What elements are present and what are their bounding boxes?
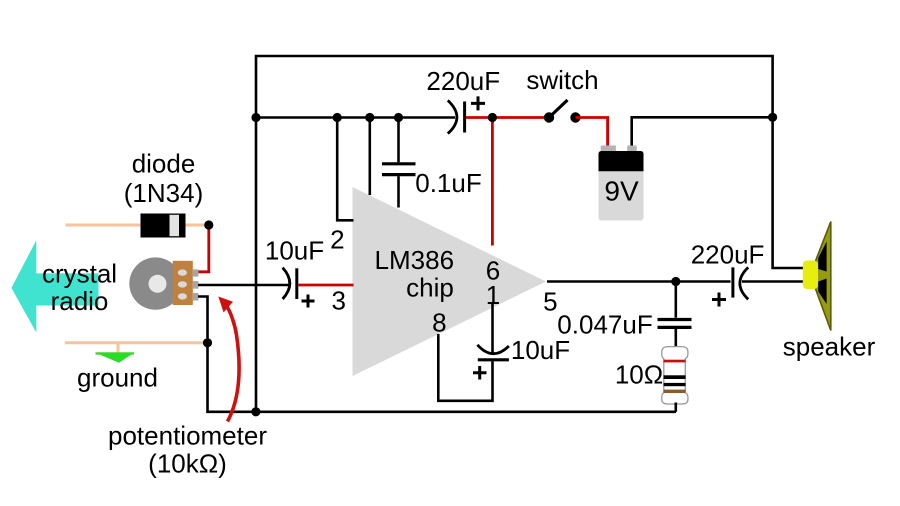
junction dot pot bottom / ground lead xyxy=(203,338,212,347)
junction dot pin6 supply xyxy=(488,113,497,122)
wire: earth ground lead (peach) xyxy=(65,341,206,344)
svg-text:5: 5 xyxy=(543,287,557,317)
potentiometer terminal top xyxy=(193,269,199,276)
wire: 0.1uF bottom stub xyxy=(397,176,400,207)
wire: output cap to speaker xyxy=(742,280,804,283)
wire: 0.1uF top stub xyxy=(397,118,400,163)
wire: output from pin 5 to 220uF out cap xyxy=(547,280,731,283)
junction dot 0.1uF stub xyxy=(394,113,403,122)
potentiometer eyelet bottom xyxy=(178,293,187,299)
wire: V+ rail (black part, left of 220uF cap) xyxy=(255,116,455,119)
diode cathode band xyxy=(170,215,180,236)
svg-text:(1N34): (1N34) xyxy=(124,178,203,208)
wire: black from battery - terminal to top-right rail xyxy=(632,117,773,146)
resistor band red xyxy=(664,360,686,363)
battery - terminal xyxy=(627,146,637,152)
wire: resistor bottom stub xyxy=(674,403,677,412)
plus sign of gain cap xyxy=(473,366,487,380)
wire: pot bottom terminal to ground bottom rail xyxy=(198,297,676,412)
resistor R2 10 ohm body (dog-bone) xyxy=(662,347,688,404)
resistor band brown xyxy=(664,390,686,393)
wire: red input cap to pin 3 xyxy=(298,284,353,287)
capacitor C1 220uF (top) curved plate xyxy=(448,100,457,133)
svg-text:radio: radio xyxy=(51,286,109,316)
capacitor C1 220uF (top) straight plate xyxy=(463,102,466,133)
junction dot output node xyxy=(671,277,680,286)
wire: antenna lead (peach) left of diode xyxy=(66,224,141,227)
svg-text:220uF: 220uF xyxy=(691,239,765,269)
resistor band black 1 xyxy=(664,375,686,379)
capacitor C2 10uF input straight plate xyxy=(295,268,298,299)
wire: red from diode junction down to pot top terminal xyxy=(197,227,209,272)
battery BT1 body xyxy=(599,151,644,221)
junction dot battery/top right xyxy=(768,113,777,122)
svg-text:10Ω: 10Ω xyxy=(615,360,663,390)
potentiometer terminal bottom xyxy=(193,293,199,301)
svg-text:2: 2 xyxy=(330,225,344,255)
speaker upper black shadow xyxy=(818,242,826,272)
wire: red pin 6 supply line xyxy=(491,118,494,246)
red annotation arrow to potentiometer xyxy=(227,306,240,422)
speaker driver (yellow) xyxy=(803,261,818,290)
wire: peach diode to junction xyxy=(186,224,208,227)
speaker cone (olive) xyxy=(816,222,831,331)
wire: pin 2 to ground rail xyxy=(337,118,353,221)
potentiometer shaft circle xyxy=(149,275,167,293)
crystal radio arrow (cyan) xyxy=(11,240,98,332)
wire: red from switch to battery + terminal xyxy=(576,118,608,147)
red annotation arrowhead xyxy=(218,297,233,313)
svg-text:diode: diode xyxy=(132,148,196,178)
op-amp U1 LM386 triangle body xyxy=(353,187,547,376)
plus sign of input cap xyxy=(302,295,315,308)
wire: pin 4 stub to ground rail xyxy=(368,118,371,196)
svg-text:crystal: crystal xyxy=(42,258,117,288)
svg-text:potentiometer: potentiometer xyxy=(108,421,267,451)
peach stub to ground symbol xyxy=(117,343,120,353)
wire: pot wiper to 10uF input cap xyxy=(198,284,289,287)
resistor band black 2 xyxy=(664,383,686,386)
wire: gain cap bottom loop to pin 8 xyxy=(438,334,492,401)
switch contact dot right xyxy=(570,112,580,122)
svg-text:10uF: 10uF xyxy=(265,236,324,266)
switch contact dot left xyxy=(544,112,554,122)
ground symbol (green) xyxy=(96,352,135,354)
wire: 0.047uF top stub xyxy=(674,282,677,318)
potentiometer eyelet middle xyxy=(178,281,187,287)
svg-text:3: 3 xyxy=(331,286,345,316)
svg-text:220uF: 220uF xyxy=(426,66,500,96)
svg-text:LM386: LM386 xyxy=(375,245,455,275)
battery + terminal xyxy=(601,146,616,152)
junction dot bottom rail / left vertical xyxy=(251,407,260,416)
svg-text:8: 8 xyxy=(432,308,446,338)
svg-text:(10kΩ): (10kΩ) xyxy=(148,449,227,479)
junction dot pin2 line xyxy=(333,113,342,122)
plus sign of 220uF top xyxy=(471,96,485,110)
junction dot rail at left vertical xyxy=(251,113,260,122)
junction dot pin4 stub xyxy=(365,113,374,122)
diode D1 1N34 body xyxy=(141,214,186,238)
wire: pin 1 down to 10uF gain cap xyxy=(491,304,494,353)
junction dot diode output xyxy=(204,220,213,229)
capacitor C3 10uF gain curved plate xyxy=(477,345,509,354)
wire: 0.047uF bottom stub to resistor xyxy=(674,329,677,347)
capacitor 0.1uF plates xyxy=(382,162,416,165)
plus sign of output cap xyxy=(712,293,726,307)
svg-text:0.047uF: 0.047uF xyxy=(557,309,652,339)
potentiometer body xyxy=(173,261,193,305)
battery top black cap xyxy=(599,151,644,171)
potentiometer terminal middle xyxy=(193,281,199,289)
capacitor C4 0.047uF plates xyxy=(658,318,692,321)
svg-text:switch: switch xyxy=(526,65,598,95)
capacitor C5 220uF output straight plate xyxy=(731,267,734,297)
speaker lower black shadow xyxy=(818,279,826,305)
svg-text:speaker: speaker xyxy=(783,331,876,361)
capacitor C3 10uF gain straight plate xyxy=(478,358,509,361)
svg-text:0.1uF: 0.1uF xyxy=(415,168,482,198)
potentiometer R1 knob circle xyxy=(129,257,181,309)
potentiometer eyelet top xyxy=(178,269,187,275)
svg-text:10uF: 10uF xyxy=(511,335,570,365)
switch S1 lever xyxy=(549,100,568,118)
svg-text:chip: chip xyxy=(406,273,454,303)
capacitor C5 220uF output curved plate xyxy=(740,267,748,299)
svg-text:9V: 9V xyxy=(604,176,639,207)
wire: red from 220uF to switch xyxy=(466,116,549,119)
capacitor C2 10uF input curved plate xyxy=(283,268,290,299)
svg-text:ground: ground xyxy=(77,363,158,393)
wire: top rail / left vertical / right vertical to speaker xyxy=(256,56,804,412)
